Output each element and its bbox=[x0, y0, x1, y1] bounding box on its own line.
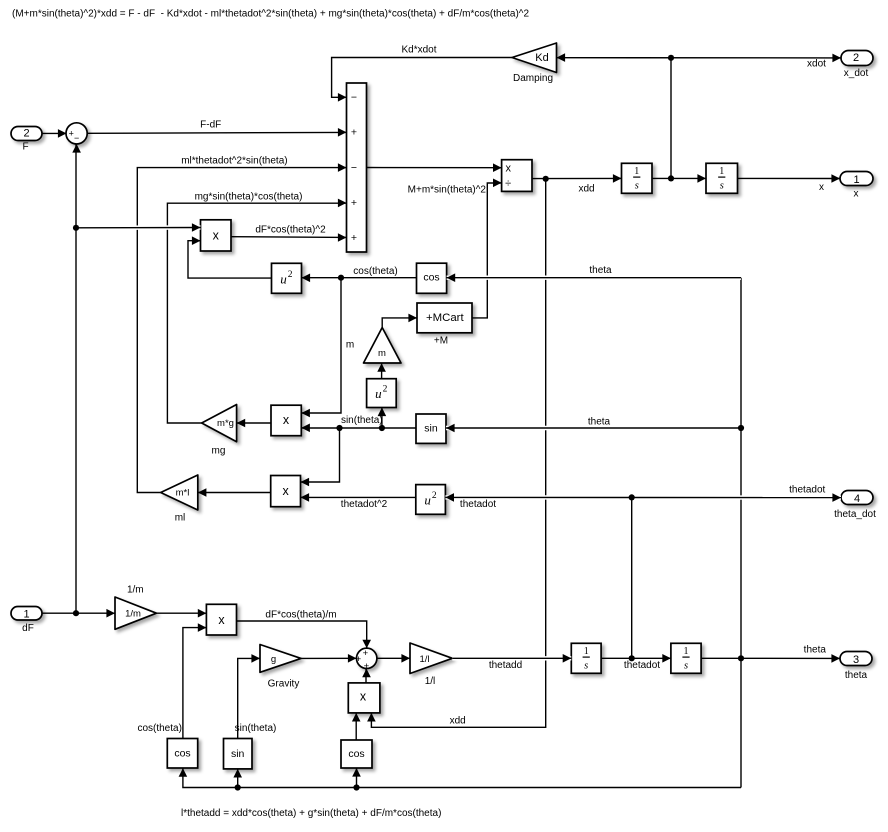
svg-text:1/l: 1/l bbox=[425, 676, 436, 687]
wire I2 to outport x bbox=[738, 177, 841, 179]
mult M2 mg bbox=[271, 405, 301, 436]
wire C3 cos to M5 bbox=[355, 713, 357, 740]
wire sin tap to U2 bbox=[381, 408, 383, 428]
svg-text:thetadot: thetadot bbox=[789, 485, 825, 496]
svg-text:m*g: m*g bbox=[217, 418, 234, 429]
svg-text:x: x bbox=[505, 162, 511, 174]
svg-text:x: x bbox=[218, 613, 225, 627]
node dF lower bbox=[73, 610, 79, 616]
wire sin branch down to M3 bbox=[301, 428, 340, 482]
svg-text:(M+m*sin(theta)^2)*xdd = F - d: (M+m*sin(theta)^2)*xdd = F - dF - Kd*xdo… bbox=[12, 9, 529, 20]
svg-text:+: + bbox=[356, 654, 362, 665]
node sin(theta) b bbox=[379, 425, 385, 431]
svg-text:xdot: xdot bbox=[807, 59, 826, 70]
cos block C2 bottom-left bbox=[167, 739, 197, 769]
wire 1/l to I3 thetadd bbox=[452, 656, 571, 660]
svg-text:ml*thetadot^2*sin(theta): ml*thetadot^2*sin(theta) bbox=[181, 155, 287, 166]
integrator I1 bbox=[622, 163, 653, 193]
node xdot top bbox=[668, 55, 674, 61]
wire dF vertical to S1 bbox=[75, 144, 77, 613]
svg-text:cos(theta): cos(theta) bbox=[137, 723, 181, 734]
svg-text:theta: theta bbox=[845, 670, 868, 681]
sum block Add bbox=[347, 83, 367, 252]
wire theta to C1 cos bbox=[447, 276, 741, 280]
wire U1 to M1 bbox=[188, 241, 272, 278]
svg-text:Kd*xdot: Kd*xdot bbox=[401, 44, 436, 55]
wire M3 to m*l gain bbox=[198, 492, 271, 494]
svg-text:s: s bbox=[684, 661, 688, 672]
svg-text:+: + bbox=[363, 648, 369, 659]
svg-text:1/m: 1/m bbox=[125, 609, 141, 620]
svg-text:F-dF: F-dF bbox=[200, 120, 221, 131]
mult M5 cos*xdd bbox=[348, 683, 380, 713]
svg-text:theta_dot: theta_dot bbox=[834, 509, 876, 520]
svg-text:2: 2 bbox=[383, 385, 388, 395]
wire 1/m to M4 bbox=[156, 612, 206, 614]
wire thetadot line bbox=[445, 495, 841, 500]
mult M4 dF/m bbox=[206, 604, 236, 635]
integrator I4 bbox=[671, 643, 701, 673]
svg-text:sin(theta): sin(theta) bbox=[341, 415, 383, 426]
wire theta to S1b sin bbox=[446, 426, 741, 430]
svg-text:s: s bbox=[635, 181, 639, 192]
mult M3 ml bbox=[271, 476, 301, 507]
svg-text:+MCart: +MCart bbox=[426, 312, 464, 324]
node dF upper tap bbox=[73, 225, 79, 231]
sin block S2b bottom bbox=[224, 739, 253, 769]
svg-text:x: x bbox=[213, 229, 220, 243]
inport 2 F bbox=[11, 127, 42, 141]
outport 3 theta bbox=[840, 652, 872, 666]
wire I1 to I2 bbox=[652, 177, 706, 179]
wire theta tap to S2b sin bbox=[237, 769, 239, 787]
svg-text:sin: sin bbox=[424, 423, 438, 435]
svg-text:1: 1 bbox=[719, 166, 724, 177]
wire thetadot vertical bbox=[631, 497, 633, 658]
svg-text:1/m: 1/m bbox=[127, 584, 144, 595]
gain m*g triangle bbox=[202, 405, 237, 442]
u^2 block U1 cos bbox=[272, 263, 302, 293]
svg-text:l*thetadd = xdd*cos(theta) + g: l*thetadd = xdd*cos(theta) + g*sin(theta… bbox=[181, 808, 441, 819]
cos block C3 bottom-mid bbox=[341, 740, 372, 768]
wire F-dF S1 to Add bbox=[87, 131, 346, 134]
svg-text:g: g bbox=[271, 654, 276, 665]
svg-text:1: 1 bbox=[853, 174, 859, 186]
wire +MCart to divide bbox=[472, 183, 502, 318]
u^2 block U3 thetadot bbox=[416, 485, 446, 515]
svg-text:+: + bbox=[351, 232, 357, 244]
svg-text:1: 1 bbox=[23, 609, 29, 621]
svg-text:sin(theta): sin(theta) bbox=[235, 723, 277, 734]
svg-text:+: + bbox=[351, 127, 357, 139]
node thetadot integ bbox=[629, 655, 635, 661]
svg-text:1: 1 bbox=[684, 646, 689, 657]
svg-text:thetadd: thetadd bbox=[489, 660, 522, 671]
svg-text:m*l: m*l bbox=[176, 488, 190, 499]
svg-text:2: 2 bbox=[853, 52, 859, 64]
svg-text:x_dot: x_dot bbox=[844, 68, 869, 79]
wire xdot line to Kd and x_dot bbox=[557, 57, 842, 59]
wire theta bottom feedback bbox=[183, 769, 741, 788]
outport 4 theta_dot bbox=[841, 491, 873, 505]
node theta bottom sin bbox=[235, 784, 241, 790]
svg-text:Damping: Damping bbox=[513, 73, 553, 84]
gain Damping Kd bbox=[512, 43, 557, 73]
svg-text:−: − bbox=[351, 92, 357, 104]
svg-text:2: 2 bbox=[432, 491, 437, 501]
wire dF tap to M1 bbox=[76, 225, 201, 230]
wire ml feedback to Add bbox=[137, 168, 346, 493]
u^2 block U2 sin bbox=[367, 379, 397, 408]
svg-text:dF: dF bbox=[22, 623, 34, 634]
svg-text:mg: mg bbox=[212, 446, 226, 457]
svg-text:theta: theta bbox=[804, 645, 827, 656]
wire C1 cos out bbox=[341, 277, 417, 279]
svg-text:−: − bbox=[351, 162, 357, 174]
svg-text:cos: cos bbox=[174, 748, 190, 760]
svg-text:Kd: Kd bbox=[535, 52, 548, 64]
svg-text:theta: theta bbox=[588, 417, 611, 428]
wire U3 to M3 thetadot^2 bbox=[301, 496, 416, 498]
svg-text:cos: cos bbox=[348, 748, 364, 760]
svg-text:m: m bbox=[346, 340, 354, 351]
svg-text:dF*cos(theta)/m: dF*cos(theta)/m bbox=[265, 610, 336, 621]
svg-text:x: x bbox=[360, 690, 367, 704]
svg-text:m: m bbox=[378, 348, 386, 359]
gain m triangle bbox=[364, 328, 402, 364]
wire m gain to +MCart bbox=[382, 318, 417, 328]
svg-text:thetadot: thetadot bbox=[624, 660, 660, 671]
svg-text:x: x bbox=[854, 189, 859, 200]
integrator I2 bbox=[706, 163, 738, 193]
svg-text:mg*sin(theta)*cos(theta): mg*sin(theta)*cos(theta) bbox=[195, 191, 303, 202]
wire theta vertical feedback bbox=[740, 278, 742, 788]
svg-text:cos: cos bbox=[423, 272, 439, 284]
svg-text:s: s bbox=[720, 181, 724, 192]
svg-text:theta: theta bbox=[589, 265, 612, 276]
wire sin out to M2 bbox=[301, 427, 416, 429]
wire theta tap to C3 cos bbox=[356, 768, 358, 787]
wire C2 cos to M4 bbox=[183, 628, 207, 739]
wire mg feedback to Add bbox=[167, 203, 346, 423]
svg-text:3: 3 bbox=[853, 654, 859, 666]
node xdot integ bbox=[668, 175, 674, 181]
svg-text:thetadot: thetadot bbox=[460, 499, 496, 510]
+MCart block bbox=[417, 303, 472, 333]
wire xdot vertical tap bbox=[670, 58, 672, 179]
svg-text:x: x bbox=[819, 182, 824, 193]
wire F to S1 bbox=[42, 132, 66, 134]
gain 1/l triangle bbox=[410, 643, 452, 674]
wire cos branch down to M2 bbox=[301, 278, 341, 413]
svg-text:u: u bbox=[375, 386, 382, 401]
svg-text:dF*cos(theta)^2: dF*cos(theta)^2 bbox=[255, 224, 326, 235]
wire xdd feedback bbox=[371, 179, 545, 728]
inport 1 dF bbox=[11, 607, 42, 621]
svg-text:Gravity: Gravity bbox=[268, 679, 300, 690]
node cos(theta) bbox=[338, 275, 344, 281]
outport 2 x_dot bbox=[841, 51, 873, 66]
svg-text:1: 1 bbox=[634, 166, 639, 177]
svg-text:u: u bbox=[280, 271, 287, 286]
svg-text:ml: ml bbox=[175, 512, 186, 523]
svg-text:2: 2 bbox=[23, 127, 29, 139]
wire Add to divide bbox=[367, 167, 502, 169]
node theta bottom cos bbox=[353, 784, 359, 790]
sin block S1b bbox=[416, 414, 446, 443]
svg-text:4: 4 bbox=[854, 493, 860, 505]
svg-text:xdd: xdd bbox=[450, 716, 466, 727]
sum junction S1 bbox=[66, 123, 87, 144]
node sin(theta) a bbox=[336, 425, 342, 431]
wire M5 to S2 bbox=[365, 669, 367, 683]
svg-text:−: − bbox=[74, 133, 79, 143]
svg-text:x: x bbox=[282, 484, 289, 498]
node thetadot line bbox=[629, 494, 635, 500]
svg-text:u: u bbox=[424, 492, 431, 507]
wire M2 to m*g gain bbox=[237, 422, 271, 424]
wire M1 to Add dF*cos^2 bbox=[231, 236, 347, 239]
svg-text:s: s bbox=[584, 661, 588, 672]
svg-text:cos(theta): cos(theta) bbox=[353, 266, 397, 277]
wire I3 to I4 bbox=[601, 657, 671, 659]
svg-text:xdd: xdd bbox=[578, 183, 594, 194]
svg-text:sin: sin bbox=[231, 748, 245, 760]
wire dF line bbox=[42, 612, 115, 614]
wire Kd output to Add bbox=[332, 58, 512, 98]
sum junction S2 bbox=[357, 648, 377, 668]
gain 1/m triangle bbox=[115, 597, 156, 629]
node theta sin tap bbox=[738, 425, 744, 431]
svg-text:1/l: 1/l bbox=[419, 654, 429, 665]
svg-text:F: F bbox=[22, 142, 28, 153]
wire M4 to S2 dF*cos/m bbox=[237, 621, 367, 648]
svg-text:÷: ÷ bbox=[505, 178, 511, 190]
wire cos(theta) junction to U1 bbox=[302, 277, 342, 279]
node theta out bbox=[738, 655, 744, 661]
wire divide out xdd bbox=[532, 177, 622, 179]
svg-text:+M: +M bbox=[434, 335, 448, 346]
gain g Gravity triangle bbox=[260, 645, 301, 673]
svg-text:M+m*sin(theta)^2: M+m*sin(theta)^2 bbox=[408, 185, 487, 196]
svg-text:+: + bbox=[351, 197, 357, 209]
svg-text:x: x bbox=[283, 413, 290, 427]
wire I4 to outport theta bbox=[701, 657, 840, 659]
gain m*l triangle bbox=[161, 475, 198, 510]
integrator I3 bbox=[571, 643, 601, 673]
divide block bbox=[502, 160, 532, 192]
wire U2 to m gain bbox=[381, 364, 383, 379]
wire S2 to 1/l bbox=[377, 657, 410, 659]
svg-text:2: 2 bbox=[288, 270, 293, 280]
svg-text:thetadot^2: thetadot^2 bbox=[341, 499, 388, 510]
wire S2b sin to g gain bbox=[238, 658, 260, 738]
mult M1 dF*cos^2 bbox=[201, 220, 232, 251]
svg-text:1: 1 bbox=[584, 646, 589, 657]
cos block C1 bbox=[417, 263, 447, 293]
outport 1 x bbox=[840, 172, 873, 186]
node xdd out bbox=[543, 176, 549, 182]
wire g to S2 bbox=[301, 657, 357, 659]
